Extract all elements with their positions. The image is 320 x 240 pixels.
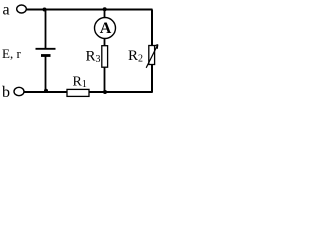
terminal b circle [14,87,24,95]
node junction dot bottom battery [44,89,48,93]
svg-text:a: a [3,2,10,19]
svg-text:b: b [2,84,10,101]
resistor R1 box [67,89,89,96]
wire ammeter to R3 [104,38,106,46]
wire bottom from terminal b to right corner [24,91,153,93]
svg-text:R3: R3 [86,49,101,66]
node junction dot bottom R3 [103,90,107,94]
wire battery branch lower [45,56,47,92]
node junction dot top ammeter [103,7,107,11]
svg-text:E,: E, [2,46,13,61]
resistor R2 box [149,46,155,65]
svg-text:R1: R1 [73,75,87,91]
resistor R2 arrow (rheostat) [146,45,158,68]
resistor R3 box [102,46,108,67]
ammeter A1 circle [95,18,116,39]
wire ammeter branch upper [104,10,106,19]
svg-text:R2: R2 [128,48,143,65]
node junction dot top battery [43,8,47,12]
svg-text:A: A [100,20,112,37]
battery E short plate [41,54,51,57]
wire top from terminal a to right corner [27,9,153,11]
wire R3 to bottom [104,67,106,92]
wire right upper (corner to R2 top) [151,10,153,47]
svg-text:r: r [17,46,22,61]
terminal a circle [17,5,27,13]
wire right lower (R2 bottom to bottom wire) [151,64,153,93]
wire battery branch upper [45,10,47,49]
battery E long plate [36,48,56,50]
